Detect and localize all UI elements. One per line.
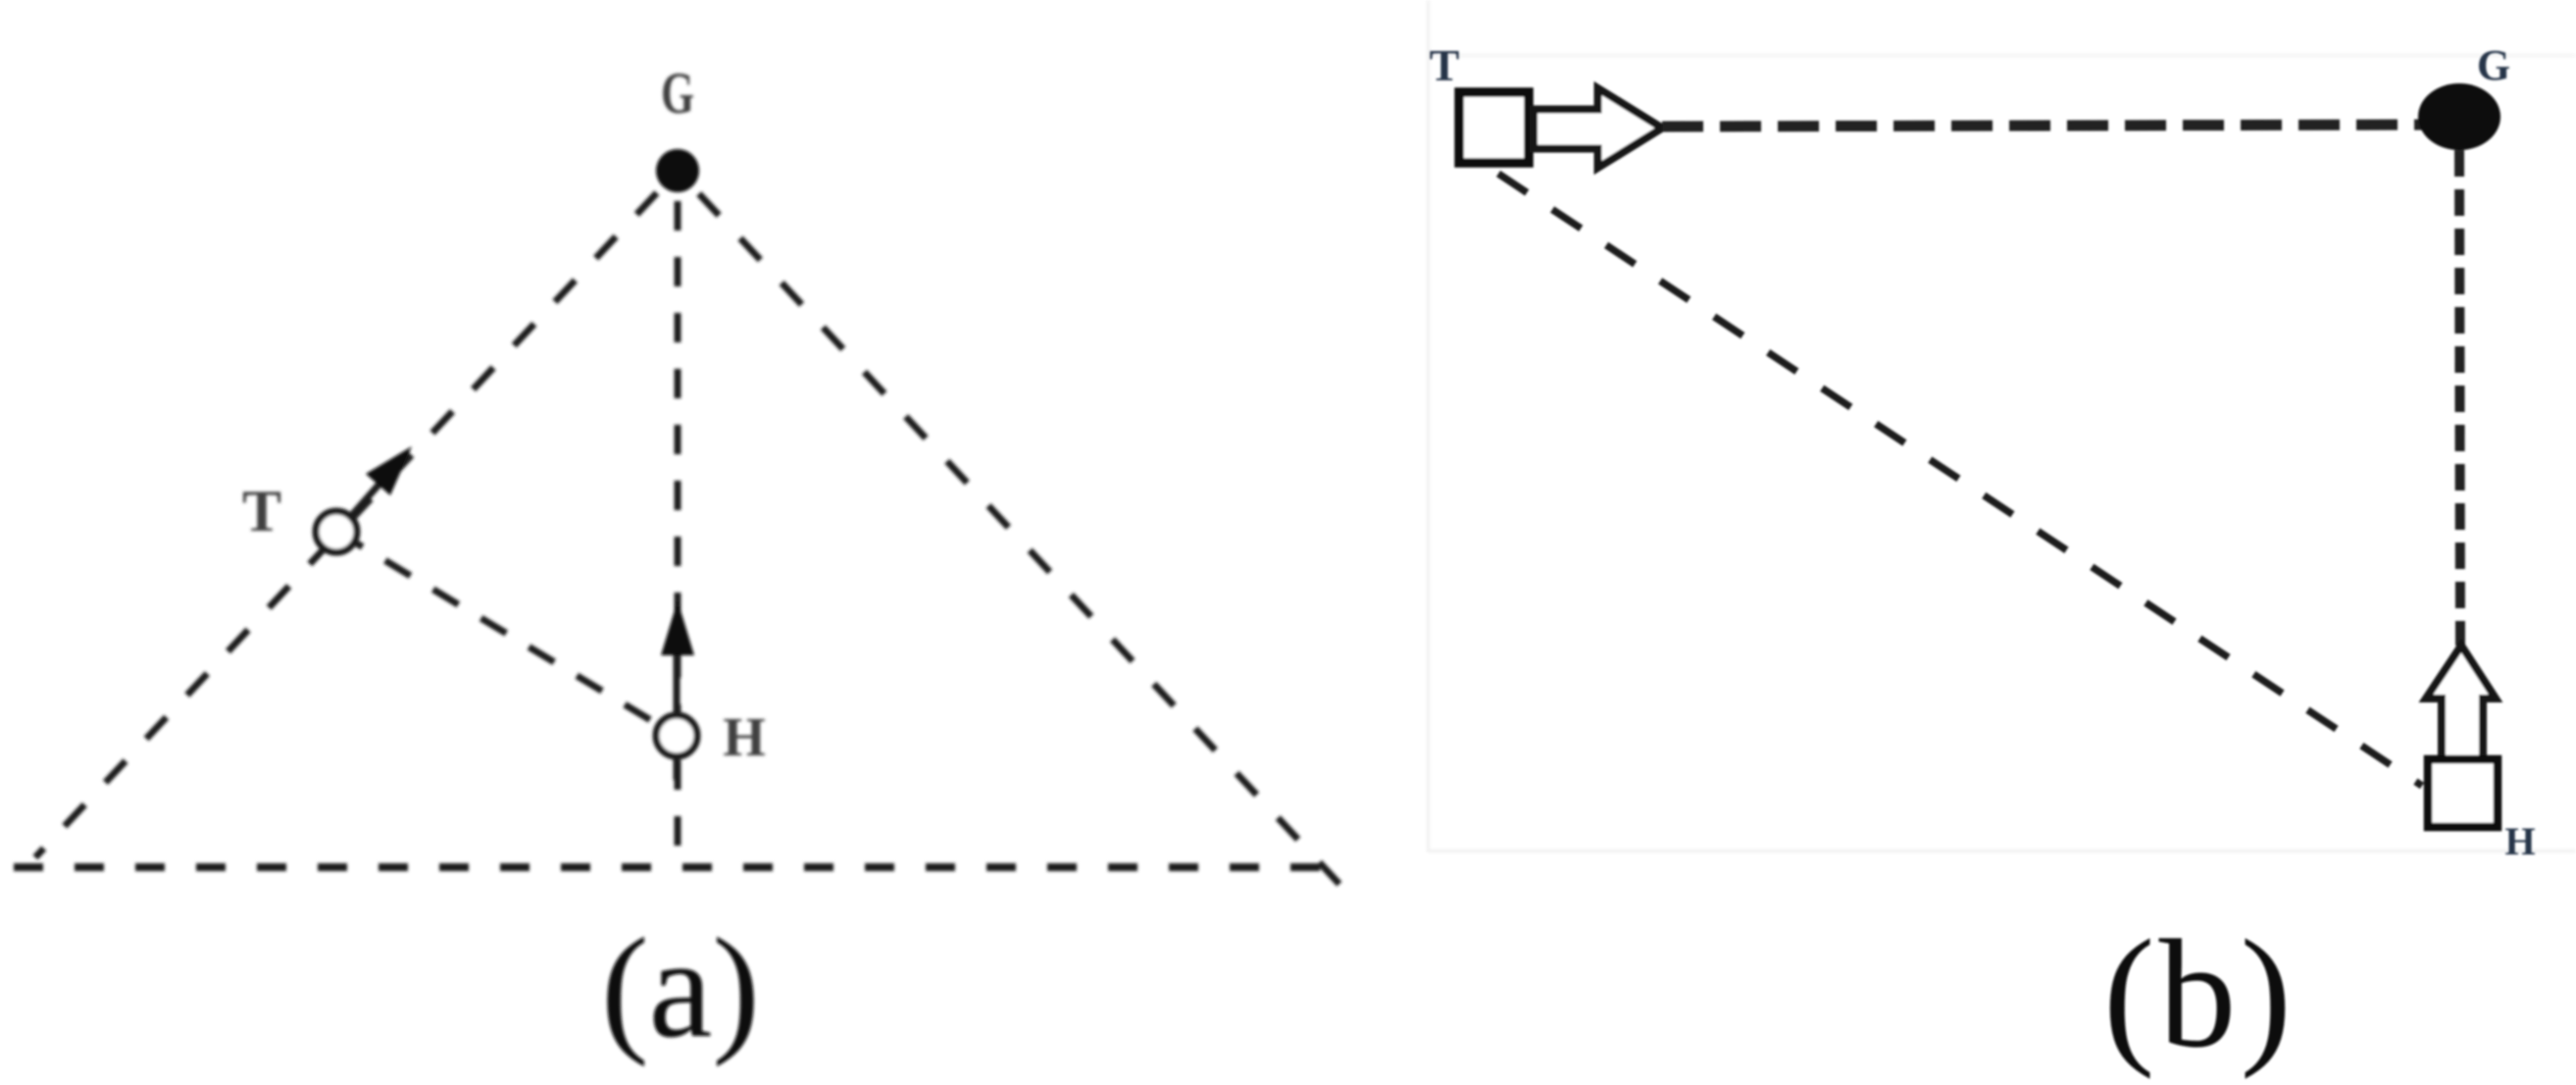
agent T: open circle [316,511,357,552]
hollow block arrow from T square pointing right [1534,88,1662,168]
agent H: open circle [656,715,697,756]
goal point G: filled dot [656,149,699,192]
wire: dashed vertical median from G to base [675,201,682,867]
faint image-border top line (panel b) [1430,54,2576,57]
svg-text:G: G [661,61,694,126]
svg-text:(a): (a) [601,908,760,1067]
wire: diagonal dashed line from T square to H square [1498,174,2422,786]
svg-text:(b): (b) [2103,908,2296,1080]
hollow block arrow from H square pointing up [2426,646,2496,759]
svg-text:T: T [1430,40,1460,90]
wire: dashed base line of triangle [14,863,1326,871]
wire: vertical dashed line from G down to H arrow [2459,150,2460,646]
wire: dashed right side of triangle (apex G to base-right corner, overshoot) [678,171,1349,895]
arrow from H toward G: shaft [674,628,681,780]
svg-text:G: G [2477,41,2510,89]
faint image-border horizontal line [1427,850,2576,852]
goal point G: filled ellipse [2418,83,2500,150]
svg-text:H: H [2504,819,2535,863]
arrow from T toward G: filled head [366,446,412,495]
wire: dashed left side of triangle (base-left corner to apex G) [35,171,678,857]
svg-text:T: T [242,479,281,543]
wire: dashed line from T to H [337,532,677,736]
svg-text:H: H [723,707,766,768]
agent T: square [1459,92,1529,163]
arrow from T toward G: shaft [337,474,388,532]
faint image-border vertical divider [1427,0,1430,852]
arrow from H toward G: filled head [661,600,694,655]
wire: horizontal dashed line from T arrow to G [1662,125,2451,127]
agent H: square [2428,759,2498,827]
